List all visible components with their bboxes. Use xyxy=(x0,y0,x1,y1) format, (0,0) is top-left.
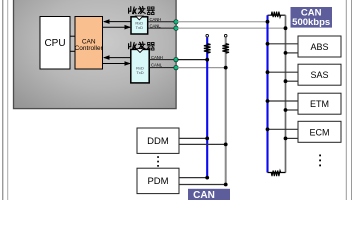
500k bus CANL black line xyxy=(285,15,287,172)
wire PDM CANH xyxy=(179,177,207,179)
resistor terminator 100k CANL xyxy=(222,44,229,54)
junction ECM-blue xyxy=(266,127,270,131)
wire ECM CANH xyxy=(268,128,299,130)
junction CANL2-gray xyxy=(224,66,228,70)
label CAN 500kbps xyxy=(291,7,333,28)
wire TxD1 (arrow to transceiver) xyxy=(103,25,131,30)
left frame line 1 xyxy=(2,0,3,200)
100k bus CANL gray line xyxy=(225,37,227,184)
SAS box xyxy=(298,64,341,85)
svg-text:500kbps: 500kbps xyxy=(292,17,330,28)
wire SAS CANH xyxy=(268,71,299,73)
resistor terminator 500k bottom xyxy=(271,171,281,177)
500k bus top rail xyxy=(268,14,286,16)
svg-text:CPU: CPU xyxy=(44,38,65,49)
junction CANH2-blue xyxy=(205,58,209,62)
wire ECM CANL xyxy=(286,137,299,139)
right frame line 2 xyxy=(351,0,352,200)
svg-text:CANH: CANH xyxy=(150,17,162,22)
svg-text:CANL: CANL xyxy=(151,63,163,68)
right frame line 1 xyxy=(346,0,347,200)
junction PDM-gray xyxy=(224,183,228,187)
junction ABS-blue xyxy=(266,42,270,46)
junction DDM-blue xyxy=(205,137,209,141)
node CANH1 green terminal xyxy=(174,20,178,24)
junction SAS-blue xyxy=(266,70,270,74)
wire RxD1 (arrow to controller) xyxy=(103,19,131,24)
wire CANL1 to 500k bus xyxy=(178,27,286,29)
left frame line 2 xyxy=(7,0,8,200)
500k bus CANH blue line xyxy=(266,15,268,172)
junction ABS-black xyxy=(284,51,288,55)
terminal circle 100k CANH xyxy=(206,34,209,37)
100k bus CANH blue line xyxy=(206,37,208,177)
junction CANL1-black xyxy=(284,26,288,30)
svg-text:TxD: TxD xyxy=(136,25,143,30)
svg-text:ABS: ABS xyxy=(310,42,328,52)
svg-text:SAS: SAS xyxy=(310,70,328,80)
wire CANL2 inside panel xyxy=(149,67,175,69)
ellipsis below ECM xyxy=(319,155,321,167)
PDM box xyxy=(137,168,179,193)
resistor terminator 100k CANH xyxy=(204,44,211,54)
junction ETM-blue xyxy=(266,99,270,103)
wire CANH2 inside panel xyxy=(149,59,175,61)
svg-text:DDM: DDM xyxy=(147,136,169,147)
wire CANL1 inside panel xyxy=(148,27,176,29)
svg-text:Controller: Controller xyxy=(75,45,104,52)
wire CANL2 to 100k bus xyxy=(178,67,226,69)
junction PDM-blue xyxy=(205,176,209,180)
wire CANH1 inside panel xyxy=(148,21,176,23)
svg-text:CAN: CAN xyxy=(193,190,215,200)
svg-text:CANH: CANH xyxy=(151,55,163,60)
wire ETM CANL xyxy=(286,109,299,111)
label 收发器 transceiver 1 (vector CJK) xyxy=(129,6,155,14)
junction ETM-black xyxy=(284,108,288,112)
resistor terminator 500k top xyxy=(271,12,281,18)
svg-text:TxD: TxD xyxy=(136,70,143,75)
CPU box xyxy=(40,17,70,70)
ETM box xyxy=(298,93,341,114)
500k bus bottom rail xyxy=(268,172,286,174)
terminal circle 100k CANL xyxy=(224,34,227,37)
CAN Controller U1 xyxy=(75,17,104,70)
node CANL2 green terminal xyxy=(174,65,178,69)
wire ABS CANH xyxy=(268,43,299,45)
transceiver box 1 xyxy=(131,16,148,34)
wire ABS CANL xyxy=(286,52,299,54)
ECM box xyxy=(298,121,341,142)
node CANH2 green terminal xyxy=(174,57,178,61)
svg-text:ECM: ECM xyxy=(310,127,330,137)
ECU module gray panel xyxy=(14,0,177,109)
wire CANH1 to 500k bus xyxy=(178,21,268,23)
wire DDM CANL xyxy=(179,143,226,145)
svg-text:PDM: PDM xyxy=(147,176,168,187)
junction SAS-black xyxy=(284,79,288,83)
wire RxD2 (arrow to controller) xyxy=(103,55,131,60)
wire PDM CANL xyxy=(179,184,226,186)
label 收发器 transceiver 2 (vector CJK) xyxy=(129,42,155,50)
svg-text:CANL: CANL xyxy=(150,23,162,28)
ellipsis between DDM and PDM xyxy=(157,156,159,167)
wire DDM CANH xyxy=(179,137,207,139)
label CAN 100k bus xyxy=(188,189,230,202)
wire SAS CANL xyxy=(286,80,299,82)
ABS box xyxy=(298,36,341,57)
node CANL1 green terminal xyxy=(174,26,178,30)
wire TxD2 (arrow to transceiver) xyxy=(103,61,131,66)
wire CPU-controller upper xyxy=(70,35,75,37)
wire ETM CANH xyxy=(268,100,299,102)
junction CANH1-blue xyxy=(266,20,270,24)
DDM box xyxy=(137,128,179,153)
junction DDM-gray xyxy=(224,143,228,147)
svg-text:ETM: ETM xyxy=(310,99,329,109)
wire CPU-controller lower xyxy=(70,50,75,52)
transceiver box 2 xyxy=(131,49,149,83)
wire CANH2 to 100k bus xyxy=(178,59,208,61)
junction ECM-black xyxy=(284,137,288,141)
